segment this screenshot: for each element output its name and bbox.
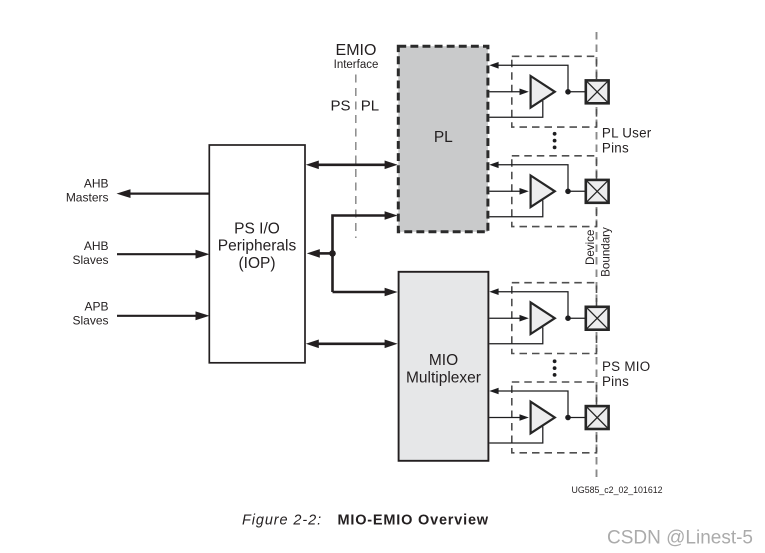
wire B4 (MIO bottom) input (fabric to buffer) [489,417,520,419]
wire B3 (MIO top) to pad [568,317,585,319]
svg-text:MIO: MIO [429,352,458,369]
buffer B1 (PL top) triangle [531,76,555,108]
wire MIO mux tee: branch to IOP [307,249,333,258]
pad B4 (MIO bottom) [586,406,609,429]
wire B2 (PL bottom) output (pad to fabric) [498,165,568,192]
wire B2 (PL bottom) input (fabric to buffer) [489,190,520,192]
svg-text:Slaves: Slaves [72,253,108,267]
svg-text:PS: PS [330,97,350,114]
buffer cell B4 (MIO bottom) boundary [512,382,597,453]
svg-text:AHB: AHB [84,239,109,253]
wire B1 (PL top) output (pad to fabric) [498,65,568,92]
wire B3 (MIO top) output (pad to fabric) [498,292,568,319]
wire MIO mux tee: branch to PL [333,211,398,292]
svg-text:PL: PL [361,97,379,114]
pad B2 (PL bottom) [586,180,609,203]
svg-text:Boundary: Boundary [600,227,613,277]
buffer cell B2 (PL bottom) boundary [512,156,597,227]
wire PS-MIO bidirectional bus [306,340,398,349]
box U2 PL (programmable logic) [398,46,488,232]
svg-text:Pins: Pins [602,141,629,156]
pad B3 (MIO top) [586,307,609,330]
svg-text:Device: Device [584,230,597,265]
node Device Boundary label [584,227,613,277]
box U1 PS I/O Peripherals (IOP) [209,145,305,363]
svg-text:UG585_c2_02_101612: UG585_c2_02_101612 [572,485,663,495]
buffer B2 (PL bottom) triangle [531,176,555,208]
node tee junction [329,250,336,257]
wire B4 (MIO bottom) to pad [568,417,585,419]
svg-text:PL User: PL User [602,126,652,141]
node B2 (PL bottom) junction [565,189,571,195]
wire B1 (PL top) to pad [568,91,585,93]
wire B2 (PL bottom) to pad [568,190,585,192]
wire B2 (PL bottom) tri-state enable [489,200,543,217]
buffer cell B1 (PL top) boundary [512,56,597,127]
svg-text:AHB: AHB [84,177,109,191]
wire B1 (PL top) input (fabric to buffer) [489,91,520,93]
buffer B3 (MIO top) triangle [531,302,555,334]
svg-text:PS I/O: PS I/O [234,220,280,237]
svg-text:Multiplexer: Multiplexer [406,369,481,386]
wire MIO mux tee: branch to MIO multiplexer [333,288,398,297]
svg-text:Slaves: Slaves [72,313,108,327]
wire B1 (PL top) tri-state enable [489,101,543,118]
svg-text:Pins: Pins [602,374,629,389]
wire AHB Slaves arrow [117,250,210,259]
node B1 (PL top) junction [565,89,571,95]
svg-text:APB: APB [84,299,108,313]
svg-text:Interface: Interface [334,59,379,71]
svg-text:MIO-EMIO Overview: MIO-EMIO Overview [338,513,489,529]
buffer B4 (MIO bottom) triangle [531,402,555,434]
node PL pins ellipsis [553,132,557,136]
svg-text:PS MIO: PS MIO [602,359,650,374]
svg-text:Masters: Masters [66,190,109,204]
wire B3 (MIO top) tri-state enable [489,327,543,344]
box U3 MIO Multiplexer [399,272,489,461]
node MIO pins ellipsis [553,359,557,363]
wire AHB Masters arrow [117,189,210,198]
svg-text:Figure 2-2:: Figure 2-2: [242,513,322,529]
wire B3 (MIO top) input (fabric to buffer) [489,317,520,319]
svg-text:EMIO: EMIO [336,42,377,59]
wire APB Slaves arrow [117,311,210,320]
svg-text:CSDN @Linest-5: CSDN @Linest-5 [607,528,753,549]
wire PS-PL EMIO bidirectional bus [306,161,398,170]
node B3 (MIO top) junction [565,315,571,321]
node B4 (MIO bottom) junction [565,415,571,421]
svg-text:Peripherals: Peripherals [218,238,297,255]
wire device boundary dashed line [596,32,598,479]
buffer cell B3 (MIO top) boundary [512,283,597,354]
wire EMIO interface dashed divider [355,75,357,239]
pad B1 (PL top) [586,80,609,103]
svg-text:PL: PL [434,129,453,146]
wire B4 (MIO bottom) output (pad to fabric) [498,391,568,418]
wire B4 (MIO bottom) tri-state enable [489,427,543,444]
svg-text:(IOP): (IOP) [238,255,275,272]
